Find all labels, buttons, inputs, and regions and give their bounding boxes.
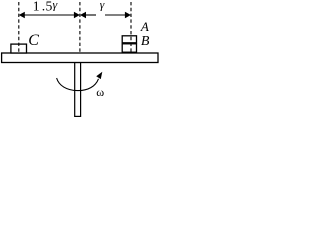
block A [122,36,136,43]
dimension arrow r left half (points left to axis) [80,12,96,19]
rotating platform bar [2,53,158,63]
dashed reference line center (axis) [79,2,81,53]
rotation shaft [75,63,81,117]
svg-text:1.5: 1.5 [33,0,53,14]
dashed reference line left (through block C) [18,2,20,53]
rotation arc arrow [57,72,103,91]
svg-text:ω: ω [96,85,104,99]
svg-text:A: A [140,19,149,34]
svg-text:γ: γ [100,0,105,11]
block C [11,44,27,53]
dimension arrow 1.5r (double headed) [19,12,80,19]
dashed reference line right (through blocks A,B) [130,2,132,53]
svg-text:C: C [28,32,39,49]
svg-text:B: B [141,34,150,49]
dimension arrow r right half (points right to dashed line) [105,12,131,19]
block B [122,44,136,52]
background [0,0,160,118]
svg-text:γ: γ [53,0,58,12]
